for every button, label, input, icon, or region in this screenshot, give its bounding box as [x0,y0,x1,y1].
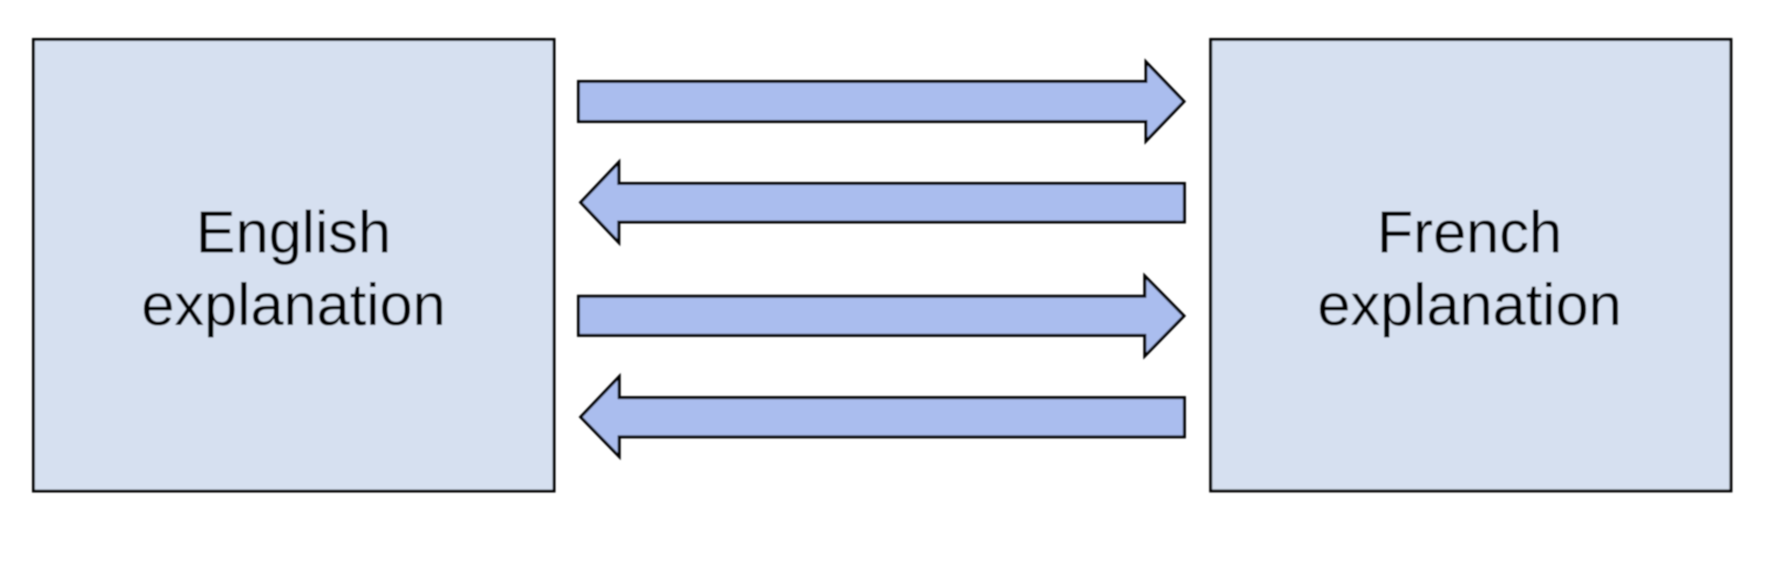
svg-text:French: French [1377,199,1562,266]
svg-text:explanation: explanation [141,271,445,338]
svg-text:explanation: explanation [1317,271,1621,338]
svg-text:English: English [196,199,391,266]
